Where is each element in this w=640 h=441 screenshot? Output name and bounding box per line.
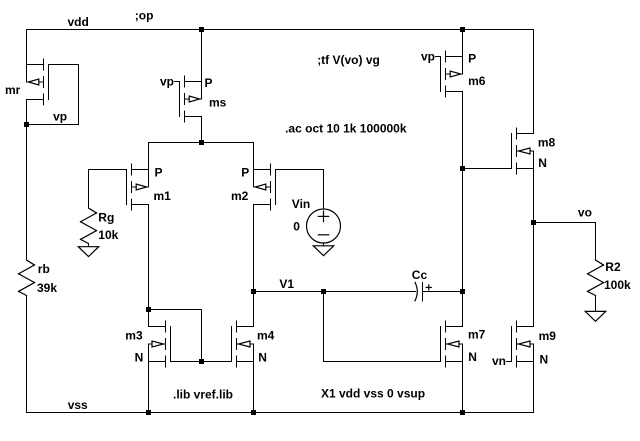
svg-text:m7: m7 <box>468 328 486 342</box>
svg-text:.ac oct 10 1k 100000k: .ac oct 10 1k 100000k <box>285 122 407 136</box>
svg-text:mr: mr <box>5 83 21 97</box>
svg-text:R2: R2 <box>605 260 621 274</box>
svg-text:rb: rb <box>38 262 50 276</box>
svg-text:vp: vp <box>53 110 67 124</box>
svg-text:V1: V1 <box>279 277 294 291</box>
svg-text:P: P <box>468 52 476 66</box>
svg-text:Rg: Rg <box>98 210 114 224</box>
svg-text:m1: m1 <box>154 189 172 203</box>
svg-text:vdd: vdd <box>68 15 89 29</box>
svg-text:m8: m8 <box>538 136 556 150</box>
svg-text:ms: ms <box>209 95 227 109</box>
svg-text:;tf V(vo) vg: ;tf V(vo) vg <box>317 53 380 67</box>
svg-text:vo: vo <box>578 206 592 220</box>
svg-text:Cc: Cc <box>412 268 428 282</box>
svg-text:P: P <box>155 166 163 180</box>
svg-text:m3: m3 <box>125 329 143 343</box>
svg-text:N: N <box>258 351 267 365</box>
svg-text:m4: m4 <box>257 329 275 343</box>
svg-text:;op: ;op <box>135 9 154 23</box>
svg-text:N: N <box>538 156 547 170</box>
svg-text:vp: vp <box>160 74 174 88</box>
svg-text:39k: 39k <box>37 281 57 295</box>
svg-text:Vin: Vin <box>292 197 310 211</box>
svg-text:N: N <box>540 353 549 367</box>
svg-text:m9: m9 <box>539 329 557 343</box>
svg-text:P: P <box>241 166 249 180</box>
svg-text:vp: vp <box>421 50 435 64</box>
svg-text:X1 vdd vss 0 vsup: X1 vdd vss 0 vsup <box>321 387 425 401</box>
svg-text:100k: 100k <box>604 278 631 292</box>
svg-text:vss: vss <box>68 398 88 412</box>
svg-text:.lib vref.lib: .lib vref.lib <box>173 388 233 402</box>
svg-text:0: 0 <box>293 219 300 233</box>
svg-text:N: N <box>135 351 144 365</box>
svg-text:m2: m2 <box>231 189 249 203</box>
svg-text:m6: m6 <box>468 74 486 88</box>
svg-text:10k: 10k <box>98 228 118 242</box>
svg-text:vn: vn <box>492 354 506 368</box>
svg-text:P: P <box>205 76 213 90</box>
svg-text:N: N <box>468 350 477 364</box>
